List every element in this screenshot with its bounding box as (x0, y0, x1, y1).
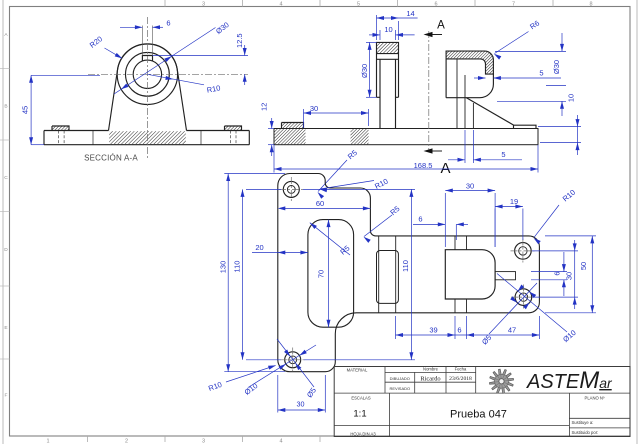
title block grid lines (334, 392, 630, 394)
label R5 leader (318, 160, 347, 192)
bore circle R10 (133, 60, 161, 88)
svg-text:E: E (4, 325, 7, 331)
svg-text:3: 3 (202, 439, 205, 444)
left mounting tab (52, 126, 69, 131)
svg-text:19: 19 (510, 197, 518, 206)
bottom zone ticks and numbers (87, 436, 89, 442)
svg-text:Fecha: Fecha (455, 367, 467, 372)
leaders O10 bottom-left hole (248, 345, 316, 388)
leaders O10 bottom-right hole (497, 274, 567, 333)
svg-text:110: 110 (401, 260, 410, 272)
svg-text:130: 130 (218, 261, 227, 274)
dim 12 (268, 128, 274, 130)
svg-text:20: 20 (255, 243, 263, 252)
dim O30 right (495, 50, 566, 52)
dim 5 wall (474, 77, 486, 79)
dim 60 (280, 207, 370, 209)
dim R6 leader (495, 32, 529, 54)
section arrow top (429, 34, 442, 36)
svg-text:5: 5 (501, 150, 505, 159)
dim 14 (376, 15, 378, 40)
dim 30 right (532, 250, 578, 252)
svg-text:10: 10 (384, 25, 392, 34)
left tab hidden lines (58, 131, 60, 145)
dim 70 slot (328, 220, 330, 328)
svg-text:70: 70 (317, 270, 326, 278)
dim 20 (252, 252, 308, 254)
label R5 upper neck leader (364, 215, 392, 237)
svg-text:6: 6 (457, 326, 461, 335)
dim R20 leader (105, 48, 122, 58)
hole bottom-left O10/O5 (285, 352, 301, 368)
dim 10 (379, 30, 381, 40)
svg-text:MATERIAL: MATERIAL (347, 367, 368, 372)
svg-text:30: 30 (565, 272, 574, 280)
svg-text:1: 1 (46, 439, 49, 444)
dim 6 top (413, 223, 445, 225)
dim 12.5 (153, 55, 249, 57)
dim O30 diagonal leader (114, 28, 216, 95)
svg-text:Ø30: Ø30 (552, 60, 561, 74)
dim 50 right (545, 235, 596, 237)
dim 19 (494, 209, 496, 248)
boss outer circle R20 (117, 44, 177, 104)
svg-text:6: 6 (434, 1, 437, 7)
label R10 top-right leader (534, 205, 559, 237)
dim R10 leader (147, 74, 204, 85)
horizontal centerline (88, 73, 248, 75)
gusset rib (466, 98, 513, 126)
dim 30 bottom (277, 375, 279, 413)
svg-text:Nombre: Nombre (423, 367, 439, 372)
svg-text:Ricardo: Ricardo (420, 375, 440, 382)
right head inner wall (446, 59, 493, 74)
svg-text:23/6/2018: 23/6/2018 (449, 376, 472, 382)
logo gear (488, 368, 515, 395)
svg-text:2: 2 (125, 439, 128, 444)
foot pad (514, 125, 537, 128)
dim 10 right (538, 126, 581, 128)
dim 168.5 (273, 145, 275, 173)
base plate (274, 129, 538, 145)
dim chain 39/6/47 (395, 316, 397, 339)
svg-text:C: C (4, 175, 8, 181)
left end top tab (282, 123, 304, 129)
top zone ticks and numbers (164, 0, 166, 7)
svg-text:PLANO Nº: PLANO Nº (585, 396, 605, 401)
svg-text:B: B (4, 104, 7, 110)
svg-text:7: 7 (512, 1, 515, 7)
svg-text:12.5: 12.5 (235, 33, 244, 48)
svg-text:60: 60 (316, 199, 324, 208)
left post boss in plan (378, 236, 380, 313)
leaders O5 bottom-left hole (277, 339, 314, 387)
central boss D-shape (445, 250, 495, 299)
svg-text:6: 6 (553, 271, 562, 275)
svg-text:4: 4 (279, 1, 282, 7)
dim 110 left (246, 188, 281, 190)
svg-text:12: 12 (260, 103, 269, 111)
svg-text:30: 30 (310, 104, 318, 113)
svg-text:10: 10 (567, 94, 576, 102)
dim 130 (224, 173, 285, 175)
svg-text:50: 50 (579, 262, 588, 270)
hole top-right O10/O5 (515, 243, 532, 260)
svg-text:A: A (437, 20, 445, 32)
dim 30 boss (444, 193, 446, 247)
title block frame (334, 367, 630, 437)
svg-text:SECCIÓN A-A: SECCIÓN A-A (84, 154, 138, 163)
dim 45 (31, 74, 100, 76)
vertical centerline (146, 17, 148, 158)
right head outline (446, 51, 493, 98)
svg-text:168.5: 168.5 (414, 161, 433, 170)
svg-text:110: 110 (233, 261, 242, 273)
svg-text:6: 6 (166, 19, 170, 28)
svg-text:5: 5 (539, 69, 543, 78)
svg-text:3: 3 (202, 1, 205, 7)
right tab hidden lines (230, 131, 232, 145)
leaders O5 bottom-right hole (489, 283, 537, 334)
dim 30 base (303, 109, 305, 128)
svg-text:DIBUJADO: DIBUJADO (390, 376, 410, 381)
svg-text:HOJA DIN A3: HOJA DIN A3 (350, 431, 376, 436)
svg-text:5: 5 (357, 1, 360, 7)
key bar (495, 272, 515, 280)
label R10 bottom-left leader (226, 366, 276, 383)
svg-text:Prueba 047: Prueba 047 (450, 409, 507, 421)
dim O30 left post (366, 41, 377, 43)
label R5 slot leader (310, 223, 350, 255)
section line A-A (428, 31, 430, 152)
keyway notch (142, 56, 152, 62)
right mounting tab (225, 126, 242, 131)
svg-text:Sustituido por:: Sustituido por: (572, 430, 599, 435)
svg-text:Sustituye a:: Sustituye a: (572, 420, 594, 425)
section arrow bottom (429, 150, 442, 152)
svg-text:39: 39 (429, 326, 437, 335)
svg-text:D: D (4, 247, 8, 253)
bore circle O30 (125, 52, 169, 96)
svg-text:8: 8 (589, 1, 592, 7)
svg-text:1:1: 1:1 (353, 409, 366, 420)
svg-text:30: 30 (297, 400, 305, 409)
svg-text:REVISADO: REVISADO (389, 386, 410, 391)
svg-text:ESCALAS: ESCALAS (351, 396, 371, 401)
svg-text:6: 6 (418, 215, 422, 224)
svg-text:A: A (440, 160, 450, 177)
slot obround (308, 220, 354, 328)
svg-text:47: 47 (508, 326, 516, 335)
left post shaft (379, 59, 381, 128)
svg-text:Ø30: Ø30 (360, 64, 369, 78)
dim 110 right (303, 188, 415, 190)
plan view outline (278, 174, 540, 372)
svg-text:30: 30 (466, 181, 474, 190)
svg-text:4: 4 (279, 439, 282, 444)
label R10 top-left leader (320, 181, 374, 190)
bell upright outline with boss arcs (109, 44, 187, 131)
dim 6 keyway (141, 26, 143, 56)
base inner edge lines (92, 131, 94, 145)
right post lines (456, 59, 458, 129)
hole top-left O10/O5 (283, 181, 299, 197)
hole bottom-right O10/O5 (515, 289, 532, 306)
dim 5 bottom (464, 130, 466, 163)
svg-text:F: F (5, 393, 8, 399)
base plate outline (44, 131, 249, 145)
dim 6 right (531, 271, 567, 273)
right post lines in plan (454, 236, 456, 250)
svg-text:45: 45 (21, 106, 30, 114)
left zone letters and ticks (0, 68, 10, 70)
svg-text:14: 14 (406, 9, 414, 18)
sheet outer edge lines (2, 0, 4, 444)
left post head outline (377, 42, 399, 97)
